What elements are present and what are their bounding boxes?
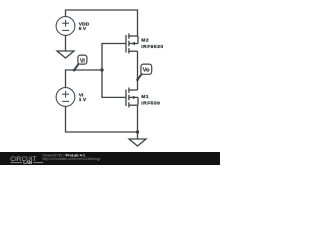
label VDD — [79, 22, 90, 32]
node label Vo flag — [136, 64, 152, 81]
wire VI top to gate junction — [66, 70, 103, 88]
svg-text:http://circuitlab.com/c/ehc33z: http://circuitlab.com/c/ehc33zkmqp — [42, 157, 100, 161]
svg-text:Vo: Vo — [143, 67, 150, 73]
svg-text:1 V: 1 V — [79, 97, 87, 103]
label M1 — [141, 94, 160, 106]
wire junction to M2 gate — [102, 44, 125, 71]
svg-text:5 V: 5 V — [79, 26, 87, 32]
footer text — [42, 153, 100, 161]
junction (gate node) — [100, 68, 103, 71]
label M2 — [141, 38, 163, 50]
wire M1 source to bottom rail / ground — [137, 105, 139, 139]
ground (left, under VDD) — [57, 51, 74, 58]
ground (right, under M1) — [129, 139, 146, 146]
footer bar — [0, 152, 220, 165]
svg-text:LAB: LAB — [23, 160, 32, 165]
node label VI flag — [73, 55, 87, 71]
junction (bottom rail) — [136, 130, 139, 133]
wire Vo net (M2 drain to M1 drain) — [137, 51, 139, 90]
svg-text:M1: M1 — [141, 94, 149, 100]
CircuitLab logo — [10, 156, 43, 165]
voltage source VI — [56, 88, 75, 107]
wire junction to M1 gate — [102, 70, 125, 97]
arrow of M2 body (points left) — [131, 42, 135, 45]
svg-text:M2: M2 — [141, 38, 149, 44]
svg-text:VI: VI — [80, 58, 85, 64]
svg-text:IRF530: IRF530 — [141, 101, 160, 107]
wire VDD top to M2 source rail — [66, 10, 138, 36]
svg-text:IRF9530: IRF9530 — [141, 44, 163, 50]
transistor M1 (NMOS IRF530) — [126, 88, 138, 108]
transistor M2 (PMOS IRF9530) — [126, 34, 138, 54]
arrow of M1 body (points right) — [133, 96, 137, 99]
wire VI bottom to bottom rail — [66, 106, 138, 132]
wire VDD bottom to ground — [65, 35, 67, 51]
label VI — [79, 92, 87, 102]
voltage source VDD — [56, 17, 75, 36]
